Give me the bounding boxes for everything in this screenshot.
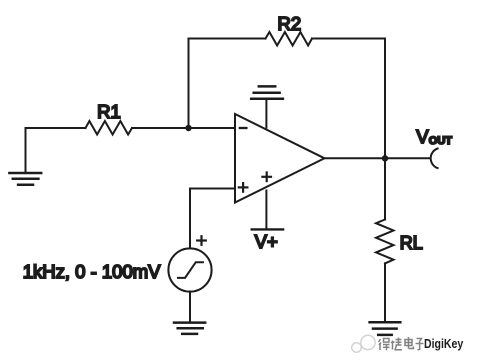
watermark logo: [352, 335, 375, 352]
ground GND1 (left input): [9, 128, 41, 185]
svg-text:V: V: [416, 126, 429, 147]
svg-text:OUT: OUT: [429, 135, 453, 147]
op-amp U1 plus marker near V+ pin: [262, 173, 271, 182]
svg-text:DigiKey: DigiKey: [424, 336, 464, 351]
char 捷: [391, 338, 402, 351]
char 子: [416, 339, 424, 350]
node B (output junction): [382, 155, 388, 161]
wire: non-inverting input to source: [190, 189, 235, 249]
wire: left ground to R1: [26, 127, 86, 129]
wire: op-amp output to terminal: [325, 157, 431, 159]
wire: feedback top left segment: [189, 38, 266, 40]
label VOUT: [416, 126, 452, 147]
wire: junction up to feedback rail: [188, 39, 190, 129]
power terminal V+ bar: [252, 228, 283, 230]
svg-text:1kHz, 0 - 100mV: 1kHz, 0 - 100mV: [23, 261, 161, 282]
terminal VOUT arc: [431, 149, 438, 169]
svg-text:R2: R2: [277, 13, 301, 34]
char 电: [405, 337, 414, 349]
svg-text:R1: R1: [97, 101, 121, 122]
char 得: [379, 339, 390, 351]
resistor RL: [376, 220, 394, 264]
wire: op-amp V+ pin stub: [265, 191, 267, 229]
node A (inverting input junction): [185, 125, 191, 131]
wire: op-amp V- pin stub: [265, 99, 267, 128]
op-amp U1: [235, 114, 325, 203]
wire: source to ground: [189, 292, 191, 322]
wire: feedback top right segment: [312, 38, 385, 40]
source VS (1 kHz ramp source): [168, 248, 211, 291]
svg-text:RL: RL: [400, 233, 423, 253]
op-amp U1 non-inverting input marker: [239, 183, 248, 192]
resistor R1: [86, 121, 133, 135]
wire: RL to ground: [384, 263, 386, 321]
wire: R1 to inverting input: [132, 127, 235, 129]
resistor R2: [266, 32, 313, 46]
source VS polarity plus: [197, 236, 206, 245]
svg-text:V+: V+: [255, 231, 278, 252]
watermark text (pseudo CJK strokes + DigiKey): [379, 337, 424, 350]
ground GND4 (load): [370, 322, 401, 335]
ground GND3 (source): [174, 323, 205, 334]
wire: right vertical feedback down to output node: [384, 39, 386, 159]
ground GND2 (op-amp V- pin, inverted): [251, 86, 283, 98]
op-amp U1 inverting input marker: [240, 127, 247, 129]
wire: output node down to RL: [384, 158, 386, 219]
